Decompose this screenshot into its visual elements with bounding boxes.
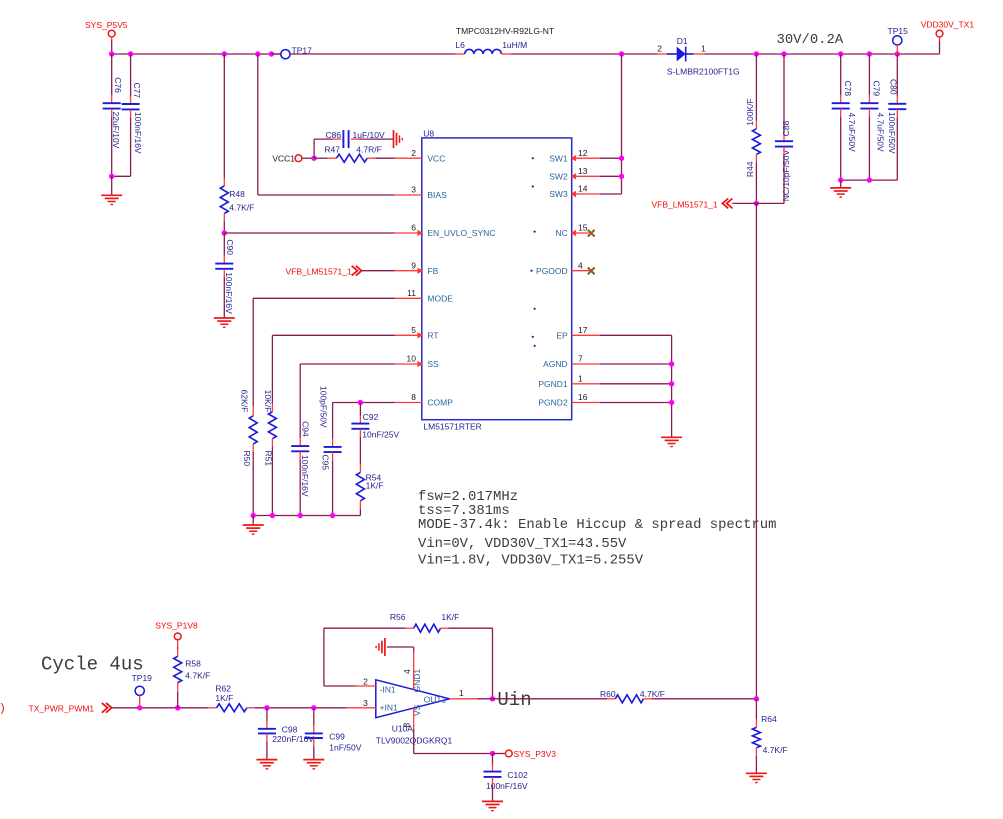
svg-text:R60: R60: [600, 689, 616, 699]
wire C86 to ground: [351, 138, 394, 140]
svg-text:R64: R64: [761, 714, 777, 724]
junction: [867, 177, 872, 182]
wire C99 top: [313, 708, 315, 734]
power symbol VDD30V_TX1: [921, 20, 975, 37]
wire C90 bottom: [223, 269, 225, 318]
junction: [109, 174, 114, 179]
svg-text:2: 2: [657, 44, 662, 54]
ground: [243, 525, 264, 534]
ground: [303, 760, 324, 769]
pin 8 COMP of U8: [395, 392, 453, 408]
svg-text:PGOOD: PGOOD: [536, 266, 568, 276]
wire feedback right: [441, 628, 493, 699]
junction: [895, 51, 900, 56]
wire C88 top: [783, 54, 785, 141]
svg-text:10nF/25V: 10nF/25V: [362, 429, 399, 439]
wire C88 bottom: [756, 147, 784, 204]
svg-text:16: 16: [578, 392, 588, 402]
wire R47 left: [314, 157, 336, 159]
svg-text:1nF/50V: 1nF/50V: [329, 742, 361, 752]
ground: [830, 188, 851, 197]
wire R58 top stub: [177, 640, 179, 656]
power symbol SYS_P5V5: [85, 20, 128, 37]
svg-text:+IN1: +IN1: [380, 702, 398, 712]
resistor R60: [600, 689, 665, 703]
junction: [838, 177, 843, 182]
wire feedback left: [324, 628, 414, 686]
svg-text:2: 2: [411, 148, 416, 158]
wire R47 right: [367, 157, 395, 159]
svg-text:C78: C78: [843, 81, 853, 97]
svg-text:5: 5: [411, 325, 416, 335]
ground rotated left: [376, 638, 385, 656]
junction: [311, 705, 316, 710]
capacitor C102: [484, 770, 528, 791]
svg-text:C99: C99: [329, 732, 345, 742]
no-connect X on pin 4: [588, 268, 595, 275]
wire R60 left stub: [607, 698, 615, 700]
pin 15 NC of U8: [555, 223, 589, 239]
svg-text:C77: C77: [132, 83, 142, 99]
wire R60 right: [644, 698, 757, 700]
junction: [669, 361, 674, 366]
text Uin: [497, 689, 531, 711]
wire OUT to R60: [478, 698, 608, 700]
junction: [781, 51, 786, 56]
wire D1 anode stub: [658, 53, 667, 55]
svg-text:SW1: SW1: [549, 153, 568, 163]
pin 4 GND1 stub: [402, 652, 414, 691]
svg-text:2: 2: [363, 677, 368, 687]
svg-text:C76: C76: [113, 77, 123, 93]
svg-text:VCC: VCC: [427, 153, 445, 163]
wire R48 top: [223, 54, 225, 186]
pin 17 EP of U8: [556, 325, 599, 341]
power symbol VCC1: [272, 153, 302, 163]
ground: [746, 773, 767, 782]
ground rotated: [394, 130, 403, 148]
svg-text:4: 4: [578, 260, 583, 270]
pin 9 FB of U8: [395, 260, 439, 276]
wire to ground: [840, 180, 842, 188]
resistor R44: [745, 98, 760, 177]
pin 7 AGND of U8: [543, 354, 599, 370]
svg-text:TMPC0312HV-R92LG-NT: TMPC0312HV-R92LG-NT: [456, 26, 554, 36]
svg-text:LM51571RTER: LM51571RTER: [423, 422, 481, 432]
wire TP15 stub: [896, 45, 898, 54]
wire PGND2 net: [600, 402, 672, 404]
svg-text:1K/F: 1K/F: [366, 481, 384, 491]
ground: [256, 760, 277, 769]
wire EN_UVLO_SYNC: [224, 232, 395, 234]
wire C102 top: [492, 754, 494, 772]
svg-text:D1: D1: [677, 36, 688, 46]
svg-text:4.7R/F: 4.7R/F: [356, 144, 382, 154]
svg-text:L6: L6: [455, 40, 465, 50]
capacitor C98: [258, 724, 314, 744]
svg-text:C94: C94: [300, 421, 310, 437]
wire R50 bottom: [252, 444, 254, 516]
capacitor C77: [122, 83, 143, 154]
junction: [838, 51, 843, 56]
test point TP17: [281, 46, 312, 59]
wire AGND net: [600, 363, 672, 365]
svg-text:MODE-37.4k: Enable Hiccup & sp: MODE-37.4k: Enable Hiccup & spread spect…: [418, 517, 776, 533]
pin 3 +IN1 stub: [347, 698, 376, 708]
wire R64 bottom: [755, 748, 757, 774]
svg-text:PGND2: PGND2: [538, 398, 568, 408]
net label TX_PWR_PWM1: [29, 703, 112, 713]
svg-text:TX_PWR_PWM1: TX_PWR_PWM1: [29, 703, 95, 713]
wire VS down: [414, 729, 493, 754]
pin 2 VCC of U8: [395, 148, 445, 164]
svg-text:100nF/16V: 100nF/16V: [133, 112, 143, 154]
wire TP19 stub: [139, 696, 141, 708]
junction: [754, 51, 759, 56]
pin 4 PGOOD of U8: [536, 260, 589, 276]
test point TP19: [132, 673, 153, 695]
junction: [867, 51, 872, 56]
resistor R50: [239, 390, 257, 467]
svg-text:1: 1: [578, 373, 583, 383]
svg-text:EP: EP: [556, 331, 568, 341]
svg-text:PGND1: PGND1: [538, 379, 568, 389]
svg-text:AGND: AGND: [543, 359, 568, 369]
resistor R51: [263, 390, 276, 467]
svg-text:8: 8: [401, 723, 411, 728]
svg-text:Vin=0V, VDD30V_TX1=43.55V: Vin=0V, VDD30V_TX1=43.55V: [418, 536, 627, 552]
svg-text:1uH/M: 1uH/M: [502, 40, 527, 50]
wire SW rail: [600, 54, 622, 194]
svg-text:100pF/50V: 100pF/50V: [319, 386, 329, 428]
wire D1 cathode stub: [694, 53, 705, 55]
wire C98 bottom: [266, 733, 268, 759]
pin number 1 of D1: [701, 44, 706, 54]
junction: [330, 513, 335, 518]
svg-text:22uF/10V: 22uF/10V: [111, 112, 121, 149]
wire PWM net: [112, 707, 209, 709]
junction: [298, 513, 303, 518]
wire C92 to R54: [359, 429, 361, 473]
pin 5 RT of U8: [395, 325, 439, 341]
junction: [311, 156, 316, 161]
wire C80 top: [896, 54, 898, 104]
wire L6 right stub: [501, 53, 511, 55]
pin 1 OUT1 stub: [450, 688, 478, 699]
svg-text:): ): [1, 701, 5, 715]
svg-text:4.7uF/50V: 4.7uF/50V: [876, 113, 886, 153]
pin 13 SW2 of U8: [549, 166, 599, 182]
ground: [101, 195, 122, 204]
capacitor C94: [291, 421, 310, 497]
svg-text:1K/F: 1K/F: [441, 612, 459, 622]
svg-text:S-LMBR2100FT1G: S-LMBR2100FT1G: [667, 67, 740, 77]
svg-text:FB: FB: [427, 266, 438, 276]
wire GND1 to ground: [387, 647, 414, 652]
svg-text:NC/10pF/50V: NC/10pF/50V: [781, 149, 791, 201]
pin 2 -IN1 stub: [356, 677, 376, 687]
pin 10 SS of U8: [395, 354, 439, 370]
wire top rail segment 1: [112, 53, 281, 55]
op-amp U10A: [376, 669, 453, 746]
svg-text:SYS_P1V8: SYS_P1V8: [155, 620, 198, 630]
net label VFB_LM51571_1 right: [652, 199, 733, 210]
wire C76 bottom: [111, 109, 113, 177]
svg-text:RT: RT: [427, 331, 438, 341]
capacitor C78: [832, 81, 857, 153]
wire top rail segment 3: [511, 53, 658, 55]
wire top rail segment 2: [290, 53, 455, 55]
text 30V/0.2A: [777, 32, 844, 48]
resistor R58: [174, 656, 211, 682]
svg-text:TP15: TP15: [888, 26, 909, 36]
wire C90 top: [223, 233, 225, 264]
svg-text:R58: R58: [185, 658, 201, 668]
inductor L6: [455, 26, 554, 54]
svg-text:13: 13: [578, 166, 588, 176]
wire R62 right: [247, 707, 347, 709]
svg-text:220nF/16V: 220nF/16V: [272, 734, 314, 744]
svg-text:100nF/50V: 100nF/50V: [887, 112, 897, 154]
svg-text:-IN1: -IN1: [380, 684, 396, 694]
text Cycle 4us: [41, 654, 144, 676]
svg-text:62K/F: 62K/F: [239, 390, 249, 413]
svg-text:9: 9: [411, 260, 416, 270]
text notes: [418, 489, 776, 569]
capacitor C79: [860, 81, 885, 153]
svg-text:15: 15: [578, 223, 588, 233]
ground: [482, 801, 503, 810]
wire VCC1 to junction: [302, 157, 314, 159]
wire C99 bottom: [313, 738, 315, 760]
junction: [619, 156, 624, 161]
ground: [661, 437, 682, 446]
wire C79 bottom: [868, 109, 870, 181]
wire C78 bottom: [840, 109, 842, 181]
svg-text:4.7K/F: 4.7K/F: [640, 689, 665, 699]
power symbol SYS_P3V3: [505, 749, 556, 759]
wire C76 top: [111, 54, 113, 103]
svg-text:4.7K/F: 4.7K/F: [763, 745, 788, 755]
junction: [358, 400, 363, 405]
net stub left edge: [1, 701, 5, 715]
junction: [669, 400, 674, 405]
diode D1: [667, 36, 740, 76]
pin 3 BIAS of U8: [395, 185, 447, 201]
svg-text:C79: C79: [872, 81, 882, 97]
svg-text:R44: R44: [745, 161, 755, 177]
wire C102 bottom: [492, 777, 494, 802]
wire VDD30V to rail: [939, 37, 941, 54]
pin number 2 of D1: [657, 44, 662, 54]
svg-text:SW3: SW3: [549, 189, 568, 199]
junction: [128, 51, 133, 56]
wire R64 top: [755, 699, 757, 728]
junction: [669, 381, 674, 386]
pin 12 SW1 of U8: [549, 148, 599, 164]
hidden-pin marks inside U8: [530, 157, 535, 347]
svg-text:TP19: TP19: [132, 673, 153, 683]
resistor R56: [390, 612, 459, 632]
svg-text:R47: R47: [324, 144, 340, 154]
svg-text:3: 3: [411, 185, 416, 195]
svg-text:C102: C102: [507, 770, 528, 780]
svg-text:OUT1: OUT1: [424, 694, 447, 704]
wire C77 top: [130, 54, 132, 104]
svg-text:17: 17: [578, 325, 588, 335]
wire R48 bottom: [223, 214, 225, 234]
svg-text:100K/F: 100K/F: [745, 98, 755, 125]
svg-text:SS: SS: [427, 359, 439, 369]
wire FB: [362, 270, 395, 272]
svg-text:VFB_LM51571_1: VFB_LM51571_1: [652, 199, 718, 209]
wire C77 bottom: [112, 109, 131, 176]
pin 14 SW3 of U8: [549, 184, 599, 200]
wire R44 top: [755, 54, 757, 129]
svg-text:C80: C80: [888, 79, 898, 95]
wire C94 bottom: [299, 451, 301, 515]
junction: [222, 51, 227, 56]
no-connect X on pin 15: [588, 230, 595, 237]
ground: [214, 318, 235, 327]
junction: [490, 696, 495, 701]
capacitor C88: [775, 120, 793, 201]
wire R54 bottom: [359, 501, 361, 516]
pin 11 MODE of U8: [395, 288, 453, 304]
resistor R47: [324, 144, 381, 162]
svg-text:100nF/16V: 100nF/16V: [224, 272, 234, 314]
wire R62 left stub: [209, 707, 217, 709]
wire VFB label to node: [732, 202, 756, 204]
pin 6 EN_UVLO_SYNC of U8: [395, 223, 496, 239]
wire SS net: [300, 364, 395, 446]
capacitor C99: [305, 732, 362, 753]
wire MODE net: [253, 298, 395, 416]
wire L6 left stub: [455, 53, 464, 55]
svg-text:6: 6: [411, 223, 416, 233]
wire C98 top: [266, 708, 268, 729]
svg-text:Cycle 4us: Cycle 4us: [41, 654, 144, 676]
junction: [754, 696, 759, 701]
test point TP15: [888, 26, 909, 45]
svg-text:R48: R48: [229, 189, 245, 199]
wire comp ground rail: [253, 515, 360, 517]
capacitor C86: [326, 130, 385, 148]
junction: [137, 705, 142, 710]
svg-text:4.7K/F: 4.7K/F: [229, 203, 254, 213]
svg-text:C88: C88: [781, 120, 791, 136]
op IC U8 LM51571RTER box: [422, 128, 572, 431]
capacitor C95: [319, 386, 342, 470]
resistor R64: [752, 714, 787, 755]
power symbol SYS_P1V8: [155, 620, 198, 640]
svg-text:30V/0.2A: 30V/0.2A: [777, 32, 844, 48]
wire C78 top: [840, 54, 842, 103]
junction: [490, 751, 495, 756]
svg-text:NC: NC: [555, 228, 567, 238]
svg-text:SYS_P3V3: SYS_P3V3: [514, 749, 557, 759]
wire C80 bottom: [841, 109, 898, 180]
wire RT net: [272, 335, 395, 412]
svg-text:C86: C86: [326, 130, 342, 140]
svg-text:4.7K/F: 4.7K/F: [185, 670, 210, 680]
svg-text:C90: C90: [225, 239, 235, 255]
svg-text:VFB_LM51571_1: VFB_LM51571_1: [286, 266, 352, 276]
pin 16 PGND2 of U8: [538, 392, 599, 408]
wire top rail segment 4: [705, 53, 940, 55]
wire to ground: [111, 176, 113, 195]
svg-text:Uin: Uin: [497, 689, 531, 711]
wire C92 top: [359, 403, 361, 424]
junction: [619, 51, 624, 56]
svg-text:10: 10: [407, 354, 417, 364]
svg-text:1: 1: [701, 44, 706, 54]
junction: [270, 513, 275, 518]
capacitor C76: [103, 77, 123, 148]
svg-text:U8: U8: [423, 128, 434, 138]
pin 8 VS stub: [401, 708, 413, 729]
wire VFB vertical run: [755, 203, 757, 698]
capacitor C80: [887, 79, 906, 154]
svg-text:COMP: COMP: [427, 398, 453, 408]
junction: [619, 174, 624, 179]
svg-text:8: 8: [411, 392, 416, 402]
svg-text:VCC1: VCC1: [272, 153, 295, 163]
wire C95 bottom: [332, 452, 334, 515]
wire PGND1 net: [600, 383, 672, 385]
junction: [269, 51, 274, 56]
capacitor C92: [351, 412, 399, 439]
svg-text:EN_UVLO_SYNC: EN_UVLO_SYNC: [427, 228, 495, 238]
junction: [251, 513, 256, 518]
pin 1 PGND1 of U8: [538, 373, 599, 389]
svg-text:SYS_P5V5: SYS_P5V5: [85, 20, 128, 30]
svg-text:C95: C95: [321, 455, 331, 471]
wire to TP17: [271, 53, 280, 55]
junction: [175, 705, 180, 710]
svg-text:BIAS: BIAS: [427, 190, 447, 200]
wire C79 top: [868, 54, 870, 103]
svg-text:SW2: SW2: [549, 172, 568, 182]
svg-text:12: 12: [578, 148, 588, 158]
svg-text:C92: C92: [363, 412, 379, 422]
svg-text:7: 7: [578, 354, 583, 364]
svg-text:14: 14: [578, 184, 588, 194]
wire COMP net: [333, 403, 395, 447]
wire EP net: [600, 335, 672, 437]
svg-text:1K/F: 1K/F: [215, 693, 233, 703]
svg-text:1: 1: [459, 688, 464, 698]
wire R44 bottom: [755, 154, 757, 203]
wire BIAS net: [258, 54, 395, 195]
capacitor C90: [215, 239, 235, 314]
wire SYS_P5V5 to rail: [111, 37, 113, 54]
svg-text:C98: C98: [282, 724, 298, 734]
junction node EN: [222, 230, 227, 235]
resistor R62: [215, 684, 246, 712]
junction: [109, 51, 114, 56]
svg-text:R50: R50: [242, 451, 252, 467]
svg-text:100nF/16V: 100nF/16V: [300, 455, 310, 497]
svg-text:4: 4: [402, 669, 412, 674]
svg-text:3: 3: [363, 698, 368, 708]
junction: [255, 51, 260, 56]
svg-text:10K/F: 10K/F: [263, 390, 273, 413]
wire R58 bottom: [177, 683, 179, 708]
junction: [264, 705, 269, 710]
wire C86 branch: [314, 139, 341, 158]
junction node VFB: [754, 201, 759, 206]
